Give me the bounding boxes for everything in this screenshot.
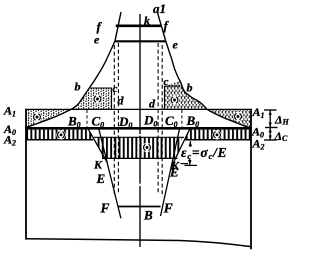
svg-text:b: b: [187, 81, 193, 95]
right settlement slant (to F/B): [161, 128, 180, 217]
left triangle top edge: [89, 87, 112, 89]
right triangle top edge: [165, 85, 181, 87]
center axis: [139, 14, 141, 247]
epsilon dimension arrow down (to K tick): [189, 159, 191, 165]
neck f line: [116, 24, 162, 27]
dimension T-bar bottom (A2): [264, 139, 277, 141]
right upper dotted triangle fill: [165, 81, 208, 109]
A2 line right: [184, 139, 252, 141]
left upper dotted triangle fill (node b-c region): [71, 88, 112, 109]
central hatch strip top edge: [94, 136, 184, 138]
K tick bar: [185, 164, 198, 166]
K dash: [181, 163, 189, 165]
left settlement slant (to F/B): [99, 128, 121, 219]
A2 line left: [25, 139, 93, 141]
svg-text:d: d: [149, 97, 156, 111]
svg-text:e: e: [94, 33, 100, 47]
svg-text:E: E: [96, 171, 106, 186]
right main stress curve: [157, 12, 251, 128]
left dashed line (outer of pair): [113, 45, 115, 194]
left stress wedge fill (between A1 line and curve, far left): [26, 109, 71, 127]
dimension arrowheads: [269, 110, 272, 140]
neck e line: [115, 40, 166, 42]
svg-text:E: E: [169, 165, 179, 180]
left hatch band A0-A2 fill: [26, 130, 94, 140]
right hatch band A0-A2 fill: [184, 130, 251, 140]
left dashed line (inner of pair): [117, 43, 119, 194]
left single dashed separator B0/C0: [86, 110, 88, 128]
left triangle right vertical edge: [111, 88, 113, 110]
svg-text:e: e: [173, 38, 179, 52]
svg-text:k: k: [144, 14, 150, 28]
right stress wedge fill (far right): [207, 109, 251, 128]
concrete symbol circle (right triangle): [170, 95, 179, 104]
epsilon dimension arrow up (to A2): [189, 141, 192, 146]
svg-text:B: B: [143, 208, 153, 223]
dimension T-bar mid (A0): [265, 127, 278, 129]
dimension T-bar top (A1): [264, 109, 277, 111]
central hatch strip fill: [96, 138, 183, 159]
outer box right edge: [250, 109, 252, 250]
svg-text:K: K: [93, 158, 103, 172]
concrete symbol circle (right band): [212, 130, 221, 139]
svg-text:F: F: [100, 201, 110, 216]
left main stress curve: [26, 12, 121, 128]
A0 line (thick): [25, 127, 252, 130]
A1 line: [25, 108, 252, 110]
right triangle left vertical edge: [164, 86, 166, 109]
svg-text:d: d: [118, 94, 125, 108]
concrete symbol circle (left wedge): [32, 112, 41, 121]
concrete symbol circle (left band): [56, 130, 65, 139]
concrete symbol circle (right wedge): [233, 112, 242, 121]
svg-text:b: b: [75, 80, 81, 94]
right compression slant (outer, to K): [171, 128, 191, 169]
dimension stem right margin: [269, 110, 271, 140]
central hatch strip bottom edge (K line): [102, 157, 178, 159]
left compression slant (outer, to K): [87, 128, 107, 164]
right dashed line (outer of pair): [161, 45, 163, 197]
right single dashed separator C0/B0: [181, 110, 183, 128]
F line: [119, 206, 161, 208]
bottom deformed line: [26, 239, 251, 247]
concrete symbol circle (central strip): [142, 143, 151, 152]
svg-text:c: c: [164, 76, 169, 88]
concrete symbol circle (left triangle): [93, 94, 102, 103]
svg-text:a1: a1: [153, 1, 166, 16]
svg-text:F: F: [163, 201, 173, 216]
right dashed line (inner of pair): [157, 43, 159, 194]
outer box left edge: [25, 109, 27, 240]
